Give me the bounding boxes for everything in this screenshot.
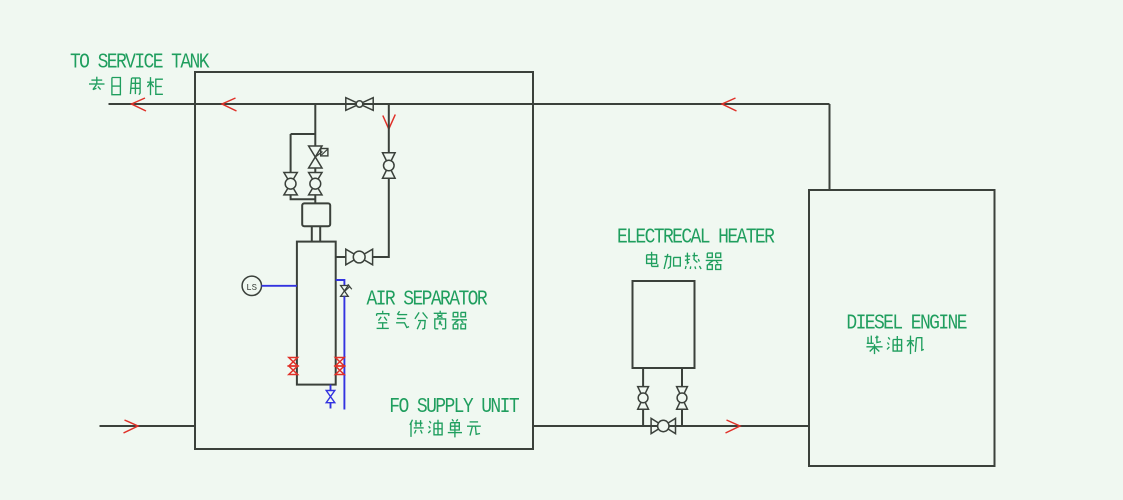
label: 去日用柜 (to service tank) (89, 77, 163, 96)
wire: bottom supply pipe from FO unit to diesel engine (533, 425, 809, 427)
wire: branch B upper segment (388, 104, 390, 153)
label: 空气分离器 (air separator) (377, 311, 467, 330)
pressure control valve with actuator (309, 146, 328, 168)
wire: heater right leg lower (681, 409, 683, 426)
wire: heater right leg upper (681, 368, 683, 387)
flow arrow down on branch B (383, 115, 396, 130)
wire: branch A-left jog horizontal (291, 133, 316, 135)
level switch instrument LS (242, 276, 261, 295)
wire: pump box leg right (319, 226, 321, 241)
heating element left (red) (289, 358, 298, 375)
wire: drain tail (blue) (330, 403, 332, 409)
air separator vessel (297, 242, 336, 385)
wire: vent line down (blue) (343, 296, 345, 409)
flow arrow left on top pipe (outer) (132, 98, 147, 111)
svg-text:ELECTRECAL HEATER: ELECTRECAL HEATER (617, 225, 775, 249)
svg-text:AIR SEPARATOR: AIR SEPARATOR (367, 287, 488, 311)
wire: pump box leg left (311, 226, 313, 241)
wire: top return pipe to service tank (109, 103, 830, 105)
wire: between actuated valve and globe valve (314, 168, 316, 173)
valve on vessel outlet (346, 249, 373, 265)
FO supply unit enclosure box (195, 72, 533, 449)
wire: heater left leg lower (642, 409, 644, 426)
wire: left column drop (290, 134, 292, 173)
flow arrow left on top pipe (inner) (222, 98, 237, 111)
electrical heater box (633, 281, 695, 368)
flow arrow left on top pipe (right) (722, 98, 737, 111)
svg-text:TO SERVICE TANK: TO SERVICE TANK (70, 50, 210, 74)
wire: outlet to riser corner (373, 178, 389, 257)
label: 柴油机 (diesel engine) (866, 336, 923, 355)
wire: bottom suction pipe left segment (100, 425, 196, 427)
wire: drain stub (blue) (330, 385, 332, 391)
bypass valve on bottom pipe (651, 418, 675, 433)
globe valve heater right leg (677, 387, 688, 410)
svg-text:LS: LS (246, 283, 257, 293)
globe valve center column (309, 173, 322, 195)
wire: branch A drop from top pipe (314, 104, 316, 146)
svg-text:DIESEL ENGINE: DIESEL ENGINE (846, 311, 966, 335)
flow arrow right on bottom left pipe (124, 420, 139, 433)
svg-text:FO SUPPLY UNIT: FO SUPPLY UNIT (389, 395, 520, 419)
valve on top return pipe (346, 98, 373, 111)
globe valve heater left leg (638, 387, 649, 410)
wire: vessel right outlet (336, 256, 346, 258)
label: 供油单元 (fuel supply unit) (410, 419, 481, 437)
globe valve on branch B (383, 153, 396, 179)
wire: LS signal line (blue) (262, 285, 297, 287)
drain valve (blue) (326, 391, 335, 403)
diesel engine box (809, 190, 995, 466)
wire: left column tail and jog to center (291, 195, 316, 199)
globe valve left column (284, 173, 297, 195)
needle vent valve (341, 284, 352, 296)
wire: vent tap from vessel (blue) (336, 280, 345, 285)
wire: riser from top pipe down to diesel engine (829, 104, 831, 190)
wire: heater left leg upper (642, 368, 644, 387)
flow arrow right on bottom pipe near engine (726, 420, 741, 433)
heating element right (red) (335, 358, 344, 375)
pump unit box on separator top (302, 203, 330, 226)
label: 电加热器 (electric heater) (647, 252, 723, 270)
wire: center column into pump box (314, 195, 316, 204)
